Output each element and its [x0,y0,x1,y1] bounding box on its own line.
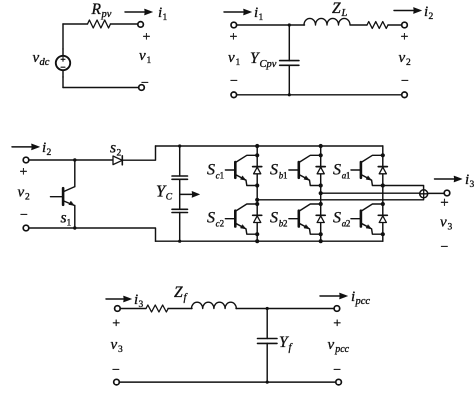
svg-text:1: 1 [220,171,225,181]
terminal v2 out + [402,22,408,28]
label Y_Cpv [250,50,277,70]
wire Y_Cpv branch upper [288,25,290,61]
svg-text:1: 1 [283,171,288,181]
resistor R_pv [88,20,111,28]
capacitor Y_Cpv [280,61,299,66]
svg-text:f: f [289,343,294,354]
svg-text:1: 1 [346,171,351,181]
label vpcc [328,337,350,355]
svg-text:2: 2 [47,148,52,158]
wire top in [29,159,113,161]
wire merge to terminal [428,192,445,194]
wire terminal to resistor [120,308,146,310]
label i2 (in) [42,140,52,158]
wire Y_f branch lower [266,343,268,382]
svg-text:v: v [139,48,146,64]
wire resistor to terminal [388,24,402,26]
label i1 (in) [254,5,264,23]
label i1 [158,5,168,23]
terminal v1+ [138,22,144,28]
label Sb1 [270,162,288,181]
svg-text:Y: Y [250,50,260,67]
svg-text:Cpv: Cpv [260,59,277,70]
terminal v3 in + [115,306,121,312]
inductor (part of Z_f) [192,302,237,308]
node Y_f top [266,307,269,310]
svg-text:v: v [440,215,447,231]
arrow i2 (out) [394,8,422,14]
switch Sa1 [351,146,387,188]
label Sc2 [207,210,224,229]
svg-text:f: f [184,293,189,304]
wire Y_C branch bottom [179,213,181,242]
label ipcc [351,289,370,307]
terminal v2 in - [23,225,29,231]
label Sb2 [270,210,288,229]
switch Sb2 [289,202,325,236]
svg-text:v: v [18,185,25,201]
svg-text:Z: Z [174,284,183,301]
wire top left [237,24,305,26]
switch Sb1 [289,153,325,187]
node top of Y_Cpv [288,23,291,26]
svg-text:2: 2 [429,12,434,22]
wire bottom [63,87,139,89]
node Y_f bottom [266,381,269,384]
wire resistor to terminal [111,23,138,25]
svg-text:−: − [333,363,341,378]
bottom rail [156,240,383,242]
arrow Y_C tap [180,191,200,197]
node s1 top [73,158,76,161]
label Z_f [174,284,189,304]
label + (v2 in) [20,165,28,180]
label + (v3 in) [112,316,120,331]
label - (v3) [441,240,449,255]
svg-text:v: v [399,50,406,66]
wire top to resistor [63,23,88,25]
arrow i1 (in) [224,9,252,15]
switch Sa2 [351,202,387,236]
label i2 (out) [424,4,434,22]
arrow i2 (in) [12,144,40,150]
capacitor Y_C upper [172,176,188,179]
leg b top connection [320,146,322,155]
wire bottom rail [119,381,335,383]
resistor (part of Z_L) [367,22,388,29]
terminal vpcc + [334,306,340,312]
leg c bottom connection [256,234,258,241]
arrow i1 [125,9,153,15]
svg-text:2: 2 [117,149,122,159]
svg-text:1: 1 [147,56,152,66]
svg-text:−: − [401,74,409,89]
switch Sc1 [225,153,261,187]
terminal v3 + [444,190,450,196]
node b rail bottom [319,239,323,243]
node Y_C top [178,144,181,147]
label + (v1) [143,30,151,45]
svg-text:2: 2 [220,219,225,229]
label Y_C [156,182,173,203]
svg-text:+: + [333,316,341,331]
svg-text:+: + [230,30,238,45]
arrow i3 (out) [435,176,463,182]
leg b bottom connection [320,234,322,241]
transistor s1 emitter wire [74,206,76,229]
leg a bottom connection [382,234,384,241]
label Y_f [279,334,294,354]
node c rail top [255,144,259,148]
svg-text:dc: dc [40,57,50,68]
resistor (part of Z_f) [146,305,168,312]
svg-text:C: C [166,193,173,203]
label s1 [61,210,72,229]
svg-text:v: v [228,50,235,66]
wire Y_Cpv branch lower [288,65,290,95]
arrow i3 (in) [106,296,132,302]
capacitor Y_f [258,339,278,344]
wire bottom rail [237,94,402,96]
wire left vertical bottom [62,77,64,88]
capacitor Y_C lower [172,209,188,212]
svg-text:3: 3 [470,180,474,190]
phase line b [321,192,420,194]
wire Y_C branch top [179,146,181,176]
terminal v1 in + [231,22,237,28]
node phase c [255,198,259,202]
svg-text:1: 1 [236,58,241,68]
svg-text:1: 1 [163,13,168,23]
svg-text:v: v [328,337,335,353]
svg-text:v: v [33,50,40,66]
transistor s1 [51,187,75,206]
terminal v3 in - [114,379,120,385]
phase line c [257,198,423,200]
node b rail top [319,144,323,148]
svg-text:+: + [440,195,448,211]
label - (v1 in) [230,74,238,89]
svg-text:+: + [112,316,120,331]
svg-text:S: S [270,162,278,179]
node s1 bottom [73,226,76,229]
svg-text:+: + [20,165,28,180]
inductor Z_L [304,18,350,25]
svg-text:Z: Z [332,0,341,17]
svg-text:s: s [110,140,116,157]
switch Sc2 [225,202,261,236]
label s2 [110,140,122,159]
wire Y_f branch upper [266,309,268,339]
leg a mid [382,186,384,205]
node c rail bottom [255,239,259,243]
transistor s1 collector wire [74,160,76,187]
svg-text:L: L [341,8,348,19]
svg-text:R: R [91,1,102,18]
wire Y_C mid [179,179,181,209]
svg-text:S: S [207,210,215,227]
svg-text:2: 2 [406,58,411,68]
svg-text:−: − [441,240,449,255]
top rail [156,145,383,147]
leg c top connection [256,146,258,155]
diode s2 [113,156,122,165]
node bottom of Y_Cpv [288,93,291,96]
wire diode to step [122,146,155,160]
label v1 (in) [228,50,241,68]
label - (v2 out) [401,74,409,89]
terminal vpcc - [336,379,342,385]
label - (vpcc) [333,363,341,378]
label Sc1 [207,162,224,181]
wire coil to resistor [351,24,368,26]
terminal v1 in - [231,92,237,98]
svg-text:S: S [333,210,341,227]
label - (v1) [141,76,149,91]
svg-text:2: 2 [283,219,288,229]
label v2 (out) [399,50,412,68]
label Sa1 [333,162,350,181]
svg-text:pv: pv [101,9,112,20]
svg-text:S: S [207,162,215,179]
leg c mid [256,186,258,205]
label v_dc [33,50,50,68]
svg-text:3: 3 [448,223,453,233]
label - (v2 in) [20,208,28,223]
label i3 (in) [134,292,144,310]
wire coil to terminal [236,308,334,310]
svg-text:2: 2 [346,219,351,229]
label v3 (in) [111,337,124,355]
svg-text:1: 1 [67,219,72,229]
svg-text:−: − [230,74,238,89]
terminal v2 in + [23,157,29,163]
phase line a [383,186,424,190]
label + (v2 out) [401,30,409,45]
label + (vpcc) [333,316,341,331]
svg-text:pcc: pcc [334,344,349,355]
svg-text:S: S [270,210,278,227]
arrow ipcc [320,293,348,299]
label + (v3) [440,195,448,211]
voltage source Vdc [56,49,70,77]
wire resistor to coil [168,308,192,310]
node Y_C bottom [178,240,181,243]
svg-text:−: − [20,208,28,223]
svg-text:2: 2 [25,193,30,203]
svg-text:+: + [401,30,409,45]
label i3 (out) [465,172,474,190]
label Z_L [332,0,348,19]
label Sa2 [333,210,350,229]
svg-text:Y: Y [279,334,289,351]
svg-text:S: S [333,162,341,179]
leg b mid [320,186,322,205]
label R_pv [91,1,112,20]
svg-text:3: 3 [118,345,123,355]
node phase b [319,191,323,195]
label v1 [139,48,152,66]
label v3 [440,215,453,233]
label - (v3 in) [112,363,120,378]
label + (v1 in) [230,30,238,45]
terminal v1- [139,85,145,91]
svg-text:+: + [143,30,151,45]
svg-text:pcc: pcc [355,296,371,307]
wire bottom in [29,228,156,241]
svg-text:−: − [112,363,120,378]
wire left vertical top [62,24,64,49]
terminal v2 out - [402,92,408,98]
label v2 (in) [18,185,31,203]
svg-text:1: 1 [259,13,264,23]
svg-text:v: v [111,337,118,353]
merge symbol (circle-plus) [420,190,428,198]
